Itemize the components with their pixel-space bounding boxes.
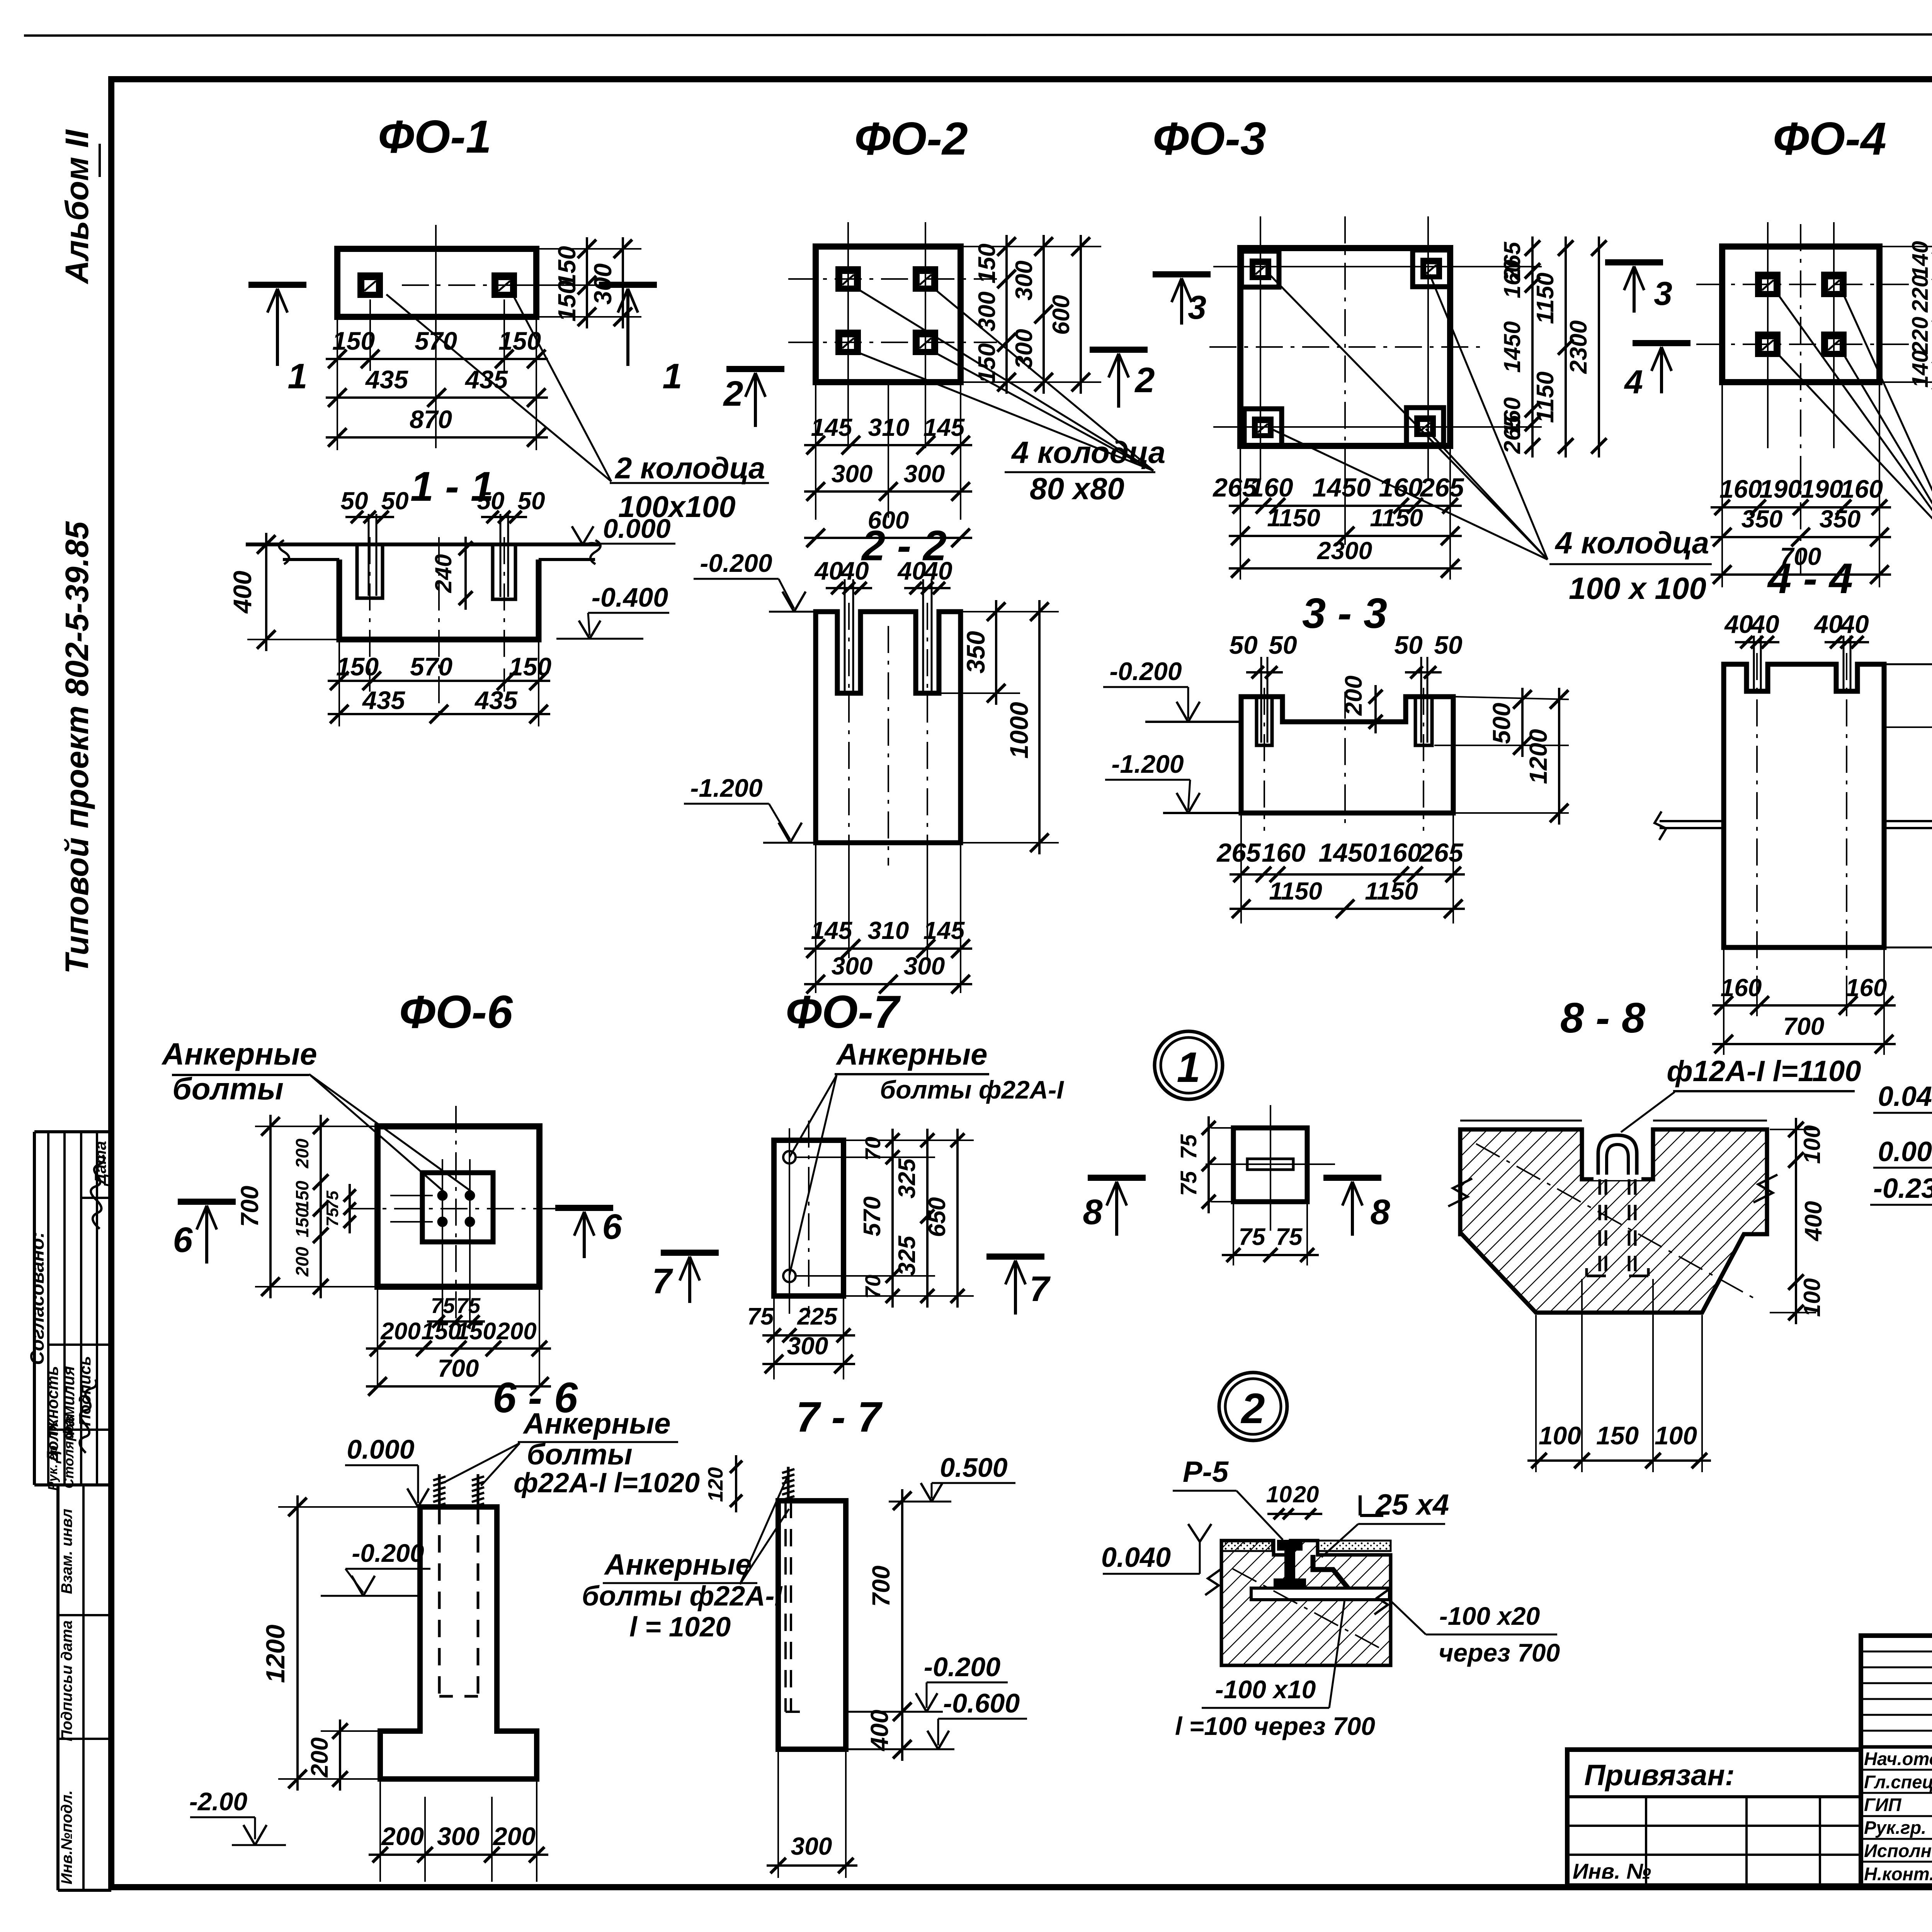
svg-text:ФО-2: ФО-2: [854, 113, 968, 165]
svg-text:l =100 через 700: l =100 через 700: [1175, 1712, 1375, 1740]
svg-text:40: 40: [1724, 610, 1753, 638]
sidebar approval table: [34, 1130, 111, 1133]
7-7 dim 120: [735, 1455, 737, 1512]
svg-text:50: 50: [381, 487, 408, 515]
svg-text:70: 70: [861, 1137, 885, 1161]
svg-text:870: 870: [410, 405, 452, 434]
node2 base plate: [1251, 1588, 1389, 1600]
svg-text:1450: 1450: [1312, 473, 1371, 502]
svg-text:75: 75: [1276, 1224, 1303, 1250]
page border top thin line: [24, 34, 1932, 36]
FO-4 wells: [1755, 272, 1781, 297]
svg-text:1200: 1200: [261, 1624, 290, 1683]
node2 centerline: [1233, 1569, 1383, 1650]
svg-text:70: 70: [861, 1275, 885, 1299]
svg-text:2: 2: [1134, 361, 1155, 400]
3-3 outline: [1241, 697, 1453, 813]
FO-3 centre ext: [1344, 448, 1346, 545]
svg-text:75: 75: [1176, 1171, 1201, 1196]
1-1 break marks: [279, 540, 289, 564]
FO-3 plan rectangle: [1240, 248, 1450, 446]
svg-text:150: 150: [509, 652, 551, 681]
svg-text:435: 435: [474, 686, 518, 714]
svg-text:20: 20: [1293, 1481, 1319, 1507]
svg-text:1150: 1150: [1370, 504, 1423, 532]
svg-text:120: 120: [704, 1467, 727, 1502]
svg-text:160: 160: [1262, 838, 1306, 867]
svg-text:0.000: 0.000: [347, 1434, 414, 1464]
svg-text:-0.600: -0.600: [943, 1688, 1020, 1718]
FO-7 section marks 7: [661, 1250, 719, 1256]
svg-text:1: 1: [287, 357, 307, 396]
svg-text:80 х80: 80 х80: [1030, 471, 1124, 506]
svg-text:40: 40: [814, 556, 843, 585]
2-2 below dims: [815, 845, 816, 993]
svg-text:Альбом II: Альбом II: [59, 129, 95, 284]
svg-text:145: 145: [923, 413, 965, 441]
FO-3 leaders 4 kolodtsa: [1269, 274, 1548, 560]
svg-text:50: 50: [1229, 631, 1258, 659]
svg-text:болты: болты: [172, 1071, 284, 1106]
FO-4 centerlines: [1696, 284, 1909, 285]
svg-text:150: 150: [421, 1318, 461, 1345]
svg-text:150: 150: [292, 1207, 312, 1237]
svg-text:8 - 8: 8 - 8: [1560, 994, 1646, 1042]
svg-text:0.000: 0.000: [1878, 1136, 1932, 1167]
svg-text:-2.00: -2.00: [189, 1787, 248, 1816]
sidebar lower boxes: [56, 1485, 60, 1890]
node circle 2: [1219, 1372, 1287, 1440]
svg-text:100: 100: [1655, 1421, 1697, 1450]
1-1 outline top slab: [246, 543, 600, 546]
svg-text:0.040: 0.040: [1101, 1542, 1171, 1573]
svg-text:4 колодца: 4 колодца: [1011, 435, 1165, 469]
svg-text:150: 150: [974, 243, 1000, 283]
svg-text:160: 160: [1378, 838, 1422, 867]
svg-text:100: 100: [1539, 1421, 1581, 1450]
svg-text:ФО-3: ФО-3: [1153, 113, 1266, 165]
svg-text:1000: 1000: [1005, 702, 1033, 759]
svg-text:Инв. №: Инв. №: [1573, 1859, 1651, 1883]
FO-7 below dims 75 225 300: [773, 1298, 775, 1379]
svg-text:145: 145: [811, 917, 853, 944]
svg-text:75: 75: [456, 1293, 481, 1318]
svg-text:435: 435: [365, 365, 408, 394]
6-6 outline: [380, 1507, 537, 1779]
6-6 leaders: [445, 1443, 520, 1482]
6-6 left dims 1200 200: [278, 1506, 418, 1508]
svg-text:-0.400: -0.400: [592, 582, 668, 612]
svg-text:ф12А-I l=1100: ф12А-I l=1100: [1667, 1055, 1861, 1088]
svg-text:Подписьи дата: Подписьи дата: [58, 1620, 75, 1741]
svg-text:500: 500: [1488, 703, 1515, 744]
svg-text:Гл.спец.: Гл.спец.: [1864, 1772, 1932, 1792]
svg-text:Анкерные: Анкерные: [604, 1548, 752, 1581]
1-1 dim 400 left: [247, 639, 337, 640]
FO-1 section mark 1 right: [599, 282, 657, 288]
svg-text:2: 2: [723, 374, 743, 413]
svg-text:-0.230: -0.230: [1873, 1173, 1932, 1204]
svg-text:220: 220: [1908, 275, 1932, 313]
svg-text:200: 200: [306, 1737, 333, 1777]
svg-text:2: 2: [1240, 1385, 1265, 1432]
node2 rail: [1277, 1540, 1303, 1551]
FO-3 below dims: [1240, 448, 1241, 580]
svg-text:310: 310: [868, 917, 909, 944]
FO-3 section mark 3 right: [1605, 259, 1663, 265]
svg-text:150: 150: [553, 281, 581, 322]
svg-text:7: 7: [1029, 1269, 1051, 1309]
svg-text:8: 8: [1083, 1192, 1103, 1232]
1-1 right notch: [493, 544, 515, 599]
svg-text:Анкерные: Анкерные: [161, 1037, 317, 1071]
title block: staff table: [1861, 1636, 1932, 1886]
svg-text:50: 50: [477, 487, 504, 515]
svg-text:140: 140: [1908, 241, 1932, 279]
svg-text:140: 140: [1908, 350, 1932, 388]
svg-text:болты ф22А-I: болты ф22А-I: [582, 1581, 783, 1612]
svg-text:150: 150: [498, 327, 541, 355]
node2 break marks: [1205, 1569, 1221, 1595]
svg-text:220: 220: [1908, 317, 1932, 355]
svg-text:ФО-1: ФО-1: [378, 111, 492, 163]
svg-text:75: 75: [323, 1207, 342, 1226]
svg-text:1150: 1150: [1267, 504, 1320, 532]
svg-text:40: 40: [923, 556, 952, 585]
FO-6 left dims: [255, 1126, 376, 1127]
svg-text:300: 300: [787, 1332, 828, 1360]
node2 hatched block: [1221, 1541, 1391, 1665]
FO-1 well left: [357, 272, 383, 298]
svg-text:1450: 1450: [1499, 321, 1525, 372]
8-8 anchor loop: [1598, 1135, 1637, 1179]
svg-text:-1.200: -1.200: [1111, 750, 1184, 778]
svg-text:50: 50: [517, 487, 545, 515]
FO-4 plan rectangle: [1722, 247, 1879, 382]
8-8 centerline: [1476, 1144, 1754, 1298]
svg-text:200: 200: [292, 1247, 312, 1277]
svg-text:400: 400: [1800, 1201, 1827, 1242]
2-2 centerlines: [848, 603, 850, 866]
FO-3 section mark 3 left: [1153, 271, 1211, 277]
svg-text:75: 75: [1239, 1224, 1266, 1250]
svg-text:0.040: 0.040: [1878, 1081, 1932, 1112]
svg-text:-100 х10: -100 х10: [1215, 1675, 1316, 1704]
FO-1 plan rectangle: [337, 249, 536, 317]
FO-2 wells: [835, 266, 861, 292]
svg-text:200: 200: [1340, 675, 1367, 716]
FO-2 section marks 2: [726, 366, 784, 372]
1-1 below dims: [338, 641, 340, 726]
svg-text:435: 435: [362, 686, 405, 714]
svg-text:1450: 1450: [1318, 838, 1377, 867]
FO-6 below dims: [377, 1289, 378, 1387]
1-1 trough box: [339, 560, 539, 639]
svg-text:265: 265: [1216, 838, 1261, 867]
svg-text:4 - 4: 4 - 4: [1767, 555, 1853, 602]
FO-1 extension lines below: [337, 319, 338, 450]
svg-text:160: 160: [1499, 260, 1525, 298]
svg-text:1150: 1150: [1269, 877, 1322, 905]
svg-text:7 - 7: 7 - 7: [796, 1393, 883, 1441]
svg-text:300: 300: [791, 1832, 832, 1860]
svg-text:ФО-6: ФО-6: [399, 986, 513, 1038]
FO-7 right dims: [845, 1139, 974, 1141]
svg-text:0.500: 0.500: [940, 1452, 1007, 1483]
svg-text:через 700: через 700: [1439, 1638, 1560, 1667]
svg-text:150: 150: [1596, 1421, 1639, 1450]
FO-2 below dims: [815, 384, 816, 520]
node2 angle piece: [1313, 1555, 1355, 1597]
4-4 below dims: [1723, 950, 1725, 1055]
4-4 bolt sleeves: [1753, 636, 1755, 689]
svg-text:200: 200: [496, 1318, 536, 1345]
svg-text:700: 700: [1783, 1012, 1825, 1040]
FO-2 right dims: [962, 246, 1101, 247]
4-4 side pipes: [1660, 820, 1724, 822]
svg-text:10: 10: [1266, 1481, 1292, 1507]
svg-text:1150: 1150: [1532, 371, 1559, 423]
3-3 centerlines: [1264, 688, 1265, 831]
svg-text:ФО-7: ФО-7: [786, 986, 901, 1038]
svg-text:-0.200: -0.200: [700, 549, 772, 577]
svg-text:Анкерные: Анкерные: [835, 1037, 987, 1071]
node1 left dims 75 75: [1207, 1116, 1210, 1213]
FO-4 leaders 4 kolodtsa 80x80: [1777, 294, 1932, 545]
8-8 right dims 100 400 100: [1770, 1129, 1816, 1130]
FO-1 centerlines: [402, 284, 603, 286]
svg-text:40: 40: [897, 556, 926, 585]
FO-1 right dims 150 150 / 300: [538, 248, 641, 250]
node circle 1: [1155, 1031, 1223, 1099]
svg-text:400: 400: [228, 571, 257, 614]
2-2 right dims: [963, 611, 1059, 612]
svg-text:570: 570: [859, 1196, 886, 1236]
svg-text:200: 200: [292, 1138, 312, 1168]
FO-4 centre line: [1800, 224, 1801, 580]
6-6 bolts threads: [438, 1474, 441, 1507]
FO-3 corner well boxes: [1242, 251, 1279, 287]
svg-text:150: 150: [292, 1180, 312, 1210]
7-7 bolt: [787, 1467, 790, 1501]
FO-1 well right: [492, 272, 517, 298]
FO-7 bolt circles: [783, 1151, 796, 1163]
FO-6 plan inner rect: [422, 1173, 493, 1242]
svg-text:160: 160: [1719, 474, 1762, 503]
FO-1 section mark 1 left: [248, 282, 306, 288]
svg-text:700: 700: [438, 1354, 479, 1382]
svg-text:300: 300: [589, 264, 617, 305]
svg-text:3 - 3: 3 - 3: [1302, 590, 1387, 637]
svg-text:50: 50: [1269, 631, 1297, 659]
svg-text:Столяров: Столяров: [61, 1416, 77, 1489]
svg-text:болты ф22А-I: болты ф22А-I: [880, 1075, 1064, 1104]
svg-text:600: 600: [1048, 295, 1075, 335]
node1 section marks 8: [1088, 1175, 1146, 1181]
7-7 right dims 700 400: [901, 1489, 903, 1761]
FO-2 centre ext: [888, 384, 889, 518]
svg-text:2 колодца: 2 колодца: [614, 451, 765, 485]
svg-text:1200: 1200: [1524, 729, 1552, 784]
svg-text:40: 40: [1840, 610, 1869, 638]
svg-text:Привязан:: Привязан:: [1584, 1759, 1735, 1792]
svg-text:240: 240: [430, 554, 456, 593]
7-7 pier outline: [778, 1501, 846, 1749]
8-8 break marks: [1448, 1179, 1472, 1206]
svg-text:75: 75: [323, 1190, 342, 1209]
svg-text:Исполн.: Исполн.: [1864, 1840, 1932, 1861]
FO-6 centerlines: [348, 1208, 576, 1209]
svg-text:ФО-4: ФО-4: [1773, 113, 1886, 165]
svg-text:8: 8: [1370, 1192, 1390, 1232]
svg-text:400: 400: [866, 1710, 893, 1752]
svg-text:75: 75: [1176, 1134, 1201, 1159]
svg-text:1150: 1150: [1365, 877, 1418, 905]
3-3 wells: [1257, 697, 1272, 745]
FO-6 bolts 4x: [437, 1190, 447, 1201]
svg-text:200: 200: [380, 1318, 420, 1345]
6-6 below dims 200 300 200: [379, 1781, 381, 1882]
svg-text:Типовой проект 802-5-39.85: Типовой проект 802-5-39.85: [59, 521, 95, 974]
svg-text:1150: 1150: [1532, 272, 1559, 324]
svg-text:-0.200: -0.200: [1109, 657, 1182, 685]
FO-4 right dims: [1882, 246, 1932, 247]
svg-text:4 колодца: 4 колодца: [1554, 526, 1709, 560]
svg-text:700: 700: [867, 1566, 895, 1607]
svg-text:145: 145: [811, 413, 853, 441]
svg-text:100 х 100: 100 х 100: [1569, 571, 1706, 605]
svg-text:225: 225: [797, 1303, 838, 1330]
svg-text:300: 300: [1011, 260, 1037, 300]
svg-text:50: 50: [1434, 631, 1463, 659]
FO-4 below dims: [1721, 384, 1723, 587]
svg-text:570: 570: [410, 652, 452, 681]
svg-text:25 х4: 25 х4: [1375, 1488, 1449, 1521]
svg-text:Н.конт.: Н.конт.: [1864, 1864, 1932, 1884]
svg-text:-1.200: -1.200: [690, 774, 762, 802]
1-1 left notch: [357, 544, 383, 598]
svg-text:1: 1: [662, 357, 682, 396]
svg-text:100: 100: [1799, 1278, 1825, 1317]
node1 centerlines: [1270, 1105, 1271, 1231]
svg-text:40: 40: [1750, 610, 1779, 638]
svg-text:Анкерные: Анкерные: [522, 1407, 670, 1440]
FO-1 leader 2 kolodtsa: [386, 294, 611, 481]
node1 slot: [1247, 1159, 1293, 1170]
7-7 below dim 300: [777, 1751, 779, 1878]
svg-text:0.000: 0.000: [603, 514, 670, 544]
svg-text:-0.200: -0.200: [352, 1539, 424, 1567]
svg-text:350: 350: [961, 631, 990, 673]
svg-text:Нач.отд.: Нач.отд.: [1864, 1748, 1932, 1769]
svg-text:6: 6: [173, 1220, 193, 1260]
svg-text:160: 160: [1846, 974, 1887, 1002]
4-4 outline: [1724, 664, 1884, 947]
8-8 hatched body: [1460, 1129, 1767, 1313]
FO-6 leaders: [309, 1074, 444, 1192]
svg-text:75: 75: [431, 1293, 455, 1318]
svg-text:Рук.гр.: Рук.гр.: [1864, 1817, 1926, 1838]
title block: privyazan box: [1567, 1750, 1861, 1886]
svg-text:325: 325: [894, 1235, 920, 1276]
svg-text:350: 350: [1820, 505, 1861, 533]
svg-text:ГИП: ГИП: [1864, 1794, 1902, 1815]
svg-text:160: 160: [1840, 474, 1883, 503]
svg-text:2300: 2300: [1565, 320, 1592, 374]
FO-7 leaders: [789, 1075, 837, 1157]
FO-3 centerlines: [1209, 346, 1480, 348]
FO-2 centerlines: [788, 278, 997, 280]
svg-text:Рук. гр. ТХ: Рук. гр. ТХ: [46, 1420, 60, 1490]
svg-text:l = 1020: l = 1020: [629, 1612, 731, 1643]
svg-text:болты: болты: [527, 1438, 632, 1471]
FO-6 section marks 6: [178, 1199, 236, 1205]
section mark 4 left: [1633, 340, 1690, 346]
svg-text:300: 300: [437, 1822, 480, 1850]
FO-7 plan rect: [774, 1140, 844, 1296]
3-3 dim 200: [1374, 685, 1377, 733]
svg-text:160: 160: [1379, 473, 1423, 502]
svg-text:3: 3: [1654, 275, 1672, 312]
4-4 right dims 200 500 400: [1886, 726, 1932, 728]
svg-text:300: 300: [832, 460, 873, 488]
svg-text:1: 1: [1177, 1044, 1200, 1091]
FO-2 plan rectangle: [816, 247, 961, 382]
svg-text:150: 150: [456, 1318, 496, 1345]
FO-2 leader 4 kolodtsa: [856, 288, 1153, 471]
svg-text:310: 310: [868, 413, 910, 441]
4-4 centerlines: [1756, 653, 1758, 974]
svg-text:Взам. инвл: Взам. инвл: [58, 1509, 75, 1594]
node1 plan square: [1233, 1128, 1307, 1202]
FO-7 centerlines: [808, 1121, 810, 1318]
svg-text:Подпись: Подпись: [76, 1356, 94, 1426]
svg-text:-0.200: -0.200: [924, 1652, 1001, 1682]
node2 screed dotted strips: [1221, 1541, 1272, 1551]
svg-text:40: 40: [1813, 610, 1843, 638]
svg-text:ф22А-I l=1020: ф22А-I l=1020: [514, 1468, 700, 1498]
2-2 outline: [816, 612, 961, 843]
svg-text:160: 160: [1249, 473, 1293, 502]
svg-text:4: 4: [1624, 364, 1643, 401]
svg-text:190: 190: [1759, 474, 1802, 503]
svg-text:300: 300: [904, 952, 945, 980]
svg-text:100: 100: [1799, 1125, 1825, 1164]
svg-text:570: 570: [415, 327, 457, 355]
svg-text:700: 700: [236, 1186, 264, 1227]
svg-text:300: 300: [832, 952, 873, 980]
3-3 below dims: [1240, 815, 1242, 923]
svg-text:2300: 2300: [1317, 537, 1372, 565]
svg-text:-100 х20: -100 х20: [1439, 1602, 1540, 1630]
1-1 dim 240: [464, 537, 467, 610]
svg-text:Р-5: Р-5: [1183, 1456, 1229, 1488]
svg-text:650: 650: [924, 1197, 951, 1237]
svg-text:145: 145: [923, 917, 965, 944]
svg-text:160: 160: [1721, 974, 1762, 1002]
svg-text:50: 50: [340, 487, 368, 515]
8-8 floor finish line: [1460, 1120, 1582, 1122]
svg-text:325: 325: [894, 1158, 920, 1199]
svg-text:50: 50: [1394, 631, 1423, 659]
svg-text:Согласовано:: Согласовано:: [26, 1231, 48, 1365]
svg-text:3: 3: [1188, 289, 1206, 326]
node1 below dims 75 75: [1233, 1204, 1234, 1265]
3-3 right dims 500 1200: [1455, 697, 1569, 699]
8-8 below dims 100 150 100: [1535, 1315, 1537, 1472]
1-1 centerlines: [369, 537, 371, 665]
svg-text:Инв.№подл.: Инв.№подл.: [58, 1790, 75, 1884]
